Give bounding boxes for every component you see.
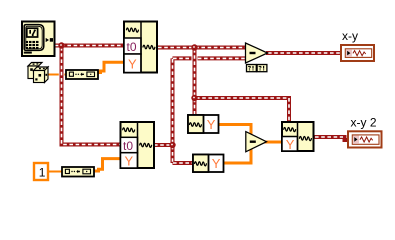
wire: junction J1 down to Build Waveform 2 t0 input	[62, 46, 121, 145]
Get Waveform Components node B	[193, 155, 224, 173]
svg-text:t0: t0	[123, 139, 133, 153]
svg-text:Y: Y	[125, 154, 134, 169]
wire: BW1 output to subtract triangle 1	[157, 46, 246, 50]
junction dot J1	[58, 42, 64, 48]
wire: J2 vertical down to J3, then to node A top and across to BW3	[195, 48, 290, 123]
wire: BW3 output to x-y 2 indicator	[314, 137, 349, 140]
svg-text:1: 1	[39, 166, 46, 180]
svg-text:Y: Y	[212, 156, 221, 171]
converter 1 (scalar to array)	[66, 70, 98, 79]
subtract triangle 1	[246, 43, 268, 63]
svg-text:Y: Y	[207, 117, 216, 132]
crossing gap where J2 vertical crosses W2	[192, 55, 198, 61]
Get Waveform Components node A	[188, 115, 219, 133]
svg-text:Y: Y	[128, 56, 137, 71]
wire: node B Y output to triangle 2 lower input	[224, 148, 252, 163]
junction dot J4	[169, 142, 175, 148]
wire: dice to converter 1 (orange scalar)	[46, 74, 59, 76]
comparison ?!?! label	[247, 65, 267, 72]
wire: icon output to Build Waveform 1 t0 input	[54, 44, 124, 48]
Build Waveform 3	[282, 122, 314, 152]
wire: triangle 2 output to BW3 Y input	[264, 141, 282, 144]
svg-text:t0: t0	[127, 40, 137, 54]
wire: constant 1 to converter 2	[48, 171, 62, 173]
svg-text:x-y 2: x-y 2	[351, 116, 377, 130]
junction dot J2	[191, 44, 197, 50]
Build Waveform 1	[124, 22, 157, 73]
x-y 2 waveform indicator	[348, 131, 382, 147]
wire: triangle 1 output to x-y indicator	[266, 51, 341, 55]
svg-text:Y: Y	[286, 137, 295, 152]
dice icon (random number)	[28, 63, 48, 83]
wire: converter 2 to BW2 Y input	[94, 159, 121, 171]
wire: BW2 output to junction J4, up to triangle 1 lower input, down to node B	[154, 58, 246, 163]
converter 2 (scalar to array)	[62, 167, 94, 177]
Build Waveform 2	[121, 122, 155, 169]
x-y waveform indicator	[341, 45, 374, 61]
junction dot J3	[191, 95, 197, 101]
svg-text:x-y: x-y	[342, 29, 358, 43]
wire: converter 1 to BW1 Y input (orange array)	[98, 62, 124, 72]
numeric constant 1	[34, 163, 48, 180]
wire: node A Y output to triangle 2 upper input	[219, 125, 252, 137]
subtract triangle 2	[246, 132, 267, 152]
instrument icon (acquire waveform VI)	[22, 22, 55, 57]
